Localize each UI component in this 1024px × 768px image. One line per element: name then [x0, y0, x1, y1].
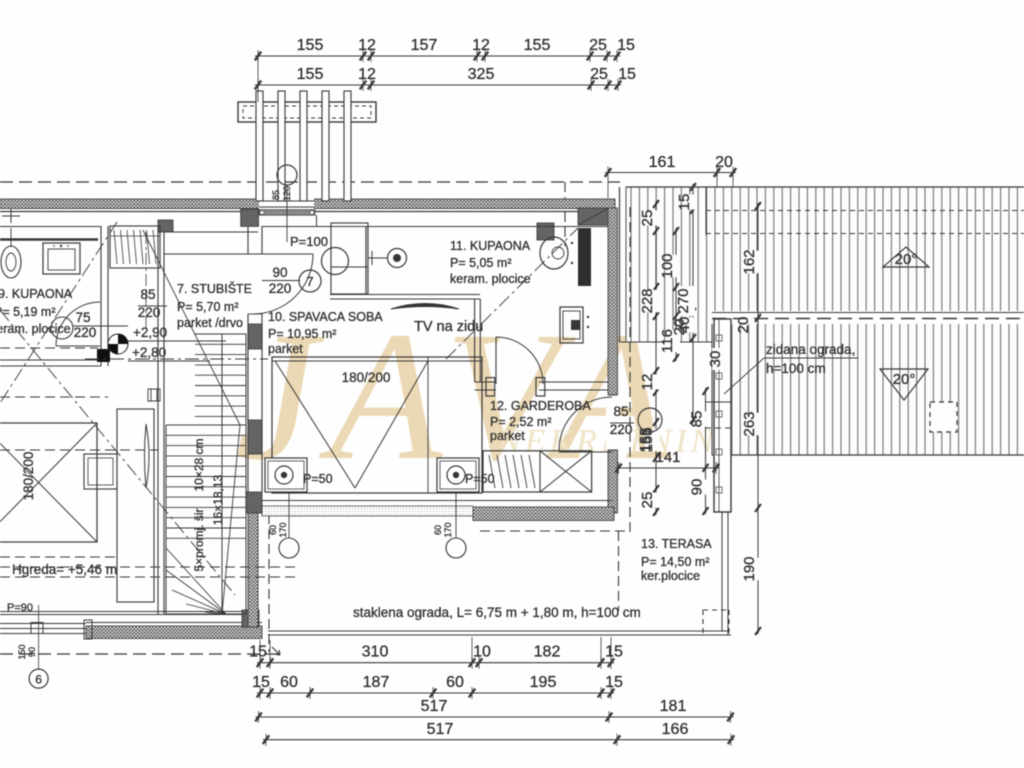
svg-text:60: 60 [268, 525, 278, 535]
svg-text:20°: 20° [893, 371, 916, 388]
svg-text:180/200: 180/200 [21, 452, 36, 501]
svg-text:12: 12 [472, 37, 490, 54]
svg-text:10: 10 [473, 644, 491, 661]
svg-text:30: 30 [707, 351, 724, 368]
svg-text:10. SPAVACA SOBA: 10. SPAVACA SOBA [268, 310, 383, 324]
svg-text:228: 228 [639, 288, 656, 313]
svg-text:P=100: P=100 [290, 234, 328, 249]
svg-text:150: 150 [17, 644, 27, 659]
svg-text:7: 7 [306, 274, 313, 289]
svg-text:11. KUPAONA: 11. KUPAONA [450, 239, 531, 253]
svg-text:15: 15 [605, 644, 623, 661]
svg-text:170: 170 [278, 522, 288, 537]
svg-text:187: 187 [363, 674, 390, 691]
svg-text:220: 220 [610, 422, 633, 437]
svg-text:P= 14,50 m²: P= 14,50 m² [641, 555, 709, 569]
svg-text:310: 310 [362, 644, 389, 661]
svg-text:141: 141 [655, 449, 680, 466]
svg-text:85: 85 [271, 190, 281, 200]
svg-text:20: 20 [735, 317, 752, 334]
svg-text:195: 195 [530, 674, 557, 691]
svg-text:P=50: P=50 [303, 472, 333, 486]
svg-text:155: 155 [637, 427, 654, 452]
svg-text:12: 12 [358, 37, 376, 54]
svg-text:263: 263 [741, 411, 758, 436]
svg-text:181: 181 [660, 698, 687, 715]
svg-text:120: 120 [282, 186, 292, 201]
svg-text:170: 170 [443, 522, 453, 537]
svg-text:20: 20 [671, 319, 688, 336]
svg-text:P= 5,05 m²: P= 5,05 m² [450, 256, 512, 270]
svg-text:85: 85 [140, 287, 155, 302]
svg-text:h=100 cm: h=100 cm [766, 361, 826, 376]
svg-text:161: 161 [649, 154, 676, 171]
svg-text:P=50: P=50 [465, 472, 495, 486]
svg-text:220: 220 [269, 281, 292, 296]
svg-text:P= 5,70 m²: P= 5,70 m² [177, 300, 239, 314]
svg-text:zidana ograda,: zidana ograda, [766, 342, 855, 357]
svg-text:5×promj. šir: 5×promj. šir [192, 508, 206, 571]
svg-text:12: 12 [639, 374, 656, 391]
svg-text:75: 75 [75, 310, 90, 325]
svg-text:157: 157 [411, 37, 438, 54]
svg-text:270: 270 [675, 288, 692, 313]
svg-text:155: 155 [297, 66, 324, 83]
svg-text:60: 60 [433, 525, 443, 535]
svg-text:25: 25 [590, 66, 608, 83]
svg-text:15: 15 [676, 194, 693, 211]
svg-text:15: 15 [618, 66, 636, 83]
svg-text:15: 15 [249, 644, 267, 661]
svg-text:keram. plocice: keram. plocice [450, 272, 531, 286]
svg-text:12: 12 [358, 66, 376, 83]
svg-text:12. GARDEROBA: 12. GARDEROBA [490, 399, 591, 413]
svg-text:+2,80: +2,80 [132, 345, 166, 360]
svg-text:25: 25 [639, 210, 656, 227]
svg-text:25: 25 [639, 492, 656, 509]
svg-text:90: 90 [689, 479, 706, 496]
svg-text:190: 190 [741, 556, 758, 581]
svg-text:15: 15 [617, 37, 635, 54]
svg-text:6: 6 [35, 673, 42, 687]
svg-text:25: 25 [589, 37, 607, 54]
svg-text:325: 325 [468, 66, 495, 83]
svg-text:16×18,13: 16×18,13 [211, 474, 225, 525]
svg-text:9. KUPAONA: 9. KUPAONA [0, 287, 73, 301]
svg-text:100: 100 [659, 253, 676, 278]
svg-text:P= 5,19 m²: P= 5,19 m² [0, 305, 56, 319]
svg-text:517: 517 [427, 721, 454, 738]
svg-text:15: 15 [252, 674, 270, 691]
svg-text:20°: 20° [895, 251, 918, 268]
svg-text:180/200: 180/200 [342, 370, 391, 385]
svg-text:keram. plocice: keram. plocice [0, 322, 71, 336]
svg-text:P= 10,95 m²: P= 10,95 m² [268, 327, 336, 341]
svg-text:13. TERASA: 13. TERASA [641, 537, 712, 551]
svg-text:+2,90: +2,90 [133, 325, 167, 340]
svg-text:517: 517 [421, 698, 448, 715]
svg-text:P= 2,52 m²: P= 2,52 m² [490, 415, 552, 429]
svg-text:85: 85 [689, 411, 706, 428]
svg-text:90: 90 [272, 265, 287, 280]
svg-text:60: 60 [280, 674, 298, 691]
svg-text:TV na zidu: TV na zidu [414, 319, 483, 335]
svg-text:220: 220 [74, 325, 97, 340]
svg-text:90: 90 [27, 647, 37, 657]
svg-text:staklena ograda, L= 6,75 m + 1: staklena ograda, L= 6,75 m + 1,80 m, h=1… [353, 605, 641, 620]
svg-text:P=90: P=90 [7, 602, 33, 614]
svg-text:155: 155 [297, 37, 324, 54]
svg-text:20: 20 [715, 154, 733, 171]
svg-text:10×28 cm: 10×28 cm [192, 438, 206, 491]
svg-text:7. STUBIŠTE: 7. STUBIŠTE [177, 281, 252, 296]
svg-text:155: 155 [524, 37, 551, 54]
svg-text:60: 60 [446, 674, 464, 691]
svg-text:15: 15 [605, 674, 623, 691]
svg-text:parket: parket [490, 429, 525, 443]
svg-text:Hgreda= +5,46 m: Hgreda= +5,46 m [12, 562, 117, 577]
svg-text:182: 182 [534, 644, 561, 661]
svg-text:162: 162 [741, 249, 758, 274]
svg-text:parket: parket [268, 342, 303, 356]
svg-text:166: 166 [662, 721, 689, 738]
svg-text:parket /drvo: parket /drvo [177, 316, 243, 330]
svg-text:220: 220 [138, 305, 161, 320]
svg-text:85: 85 [613, 404, 628, 419]
svg-text:ker.plocice: ker.plocice [641, 569, 700, 583]
